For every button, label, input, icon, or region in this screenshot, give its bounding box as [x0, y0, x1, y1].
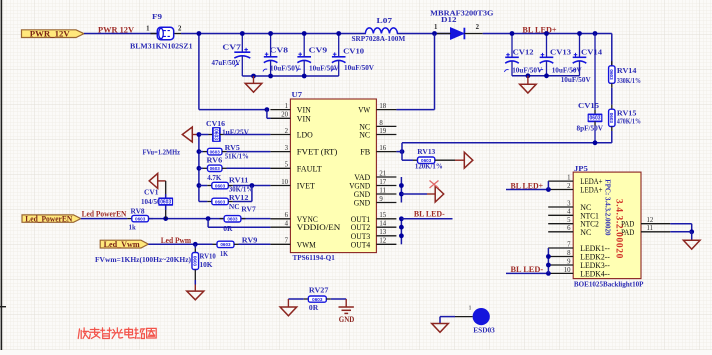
svg-text:0603: 0603 [220, 242, 231, 247]
svg-text:2: 2 [285, 128, 289, 135]
svg-text:18: 18 [379, 103, 386, 110]
svg-text:1: 1 [567, 175, 570, 182]
svg-text:1: 1 [469, 306, 472, 312]
svg-text:JP5: JP5 [574, 164, 588, 173]
svg-text:10uF/50V: 10uF/50V [552, 66, 582, 75]
svg-text:10uF/50V: 10uF/50V [561, 75, 591, 84]
svg-text:1: 1 [285, 103, 288, 110]
svg-text:9: 9 [567, 258, 571, 265]
svg-text:47uF/50V: 47uF/50V [212, 58, 241, 67]
svg-text:SRP7028A-100M: SRP7028A-100M [352, 34, 406, 43]
svg-text:10uF/50V: 10uF/50V [344, 63, 374, 72]
svg-text:BLM31KN102SZ1: BLM31KN102SZ1 [130, 42, 193, 51]
svg-text:10: 10 [281, 179, 288, 186]
svg-text:VW: VW [358, 106, 370, 115]
svg-text:470K/1%: 470K/1% [617, 117, 641, 126]
svg-text:19: 19 [379, 128, 386, 135]
svg-text:5: 5 [567, 217, 571, 224]
svg-text:L07: L07 [377, 16, 393, 25]
svg-text:RV27: RV27 [309, 286, 329, 295]
svg-text:LEDA+: LEDA+ [580, 186, 602, 195]
svg-text:0603: 0603 [193, 256, 198, 267]
svg-text:LDO: LDO [297, 131, 313, 140]
svg-text:14: 14 [379, 221, 386, 228]
svg-text:GND: GND [354, 199, 371, 208]
svg-text:CV15: CV15 [578, 101, 599, 110]
svg-text:CV9: CV9 [309, 45, 328, 54]
svg-text:ESD03: ESD03 [473, 326, 495, 335]
svg-text:15: 15 [379, 212, 386, 219]
svg-text:6: 6 [285, 212, 289, 219]
svg-text:U7: U7 [292, 90, 303, 99]
svg-text:0603: 0603 [215, 199, 226, 204]
svg-text:9: 9 [379, 196, 383, 203]
svg-text:16: 16 [379, 145, 386, 152]
svg-text:5: 5 [285, 162, 289, 169]
svg-text:10uF/50V: 10uF/50V [309, 63, 339, 72]
svg-text:2: 2 [476, 24, 480, 31]
svg-text:0R: 0R [223, 224, 233, 233]
svg-text:FPC: 3.4.3.2.00020: FPC: 3.4.3.2.00020 [603, 179, 611, 236]
svg-text:2: 2 [178, 26, 182, 33]
svg-text:0603: 0603 [213, 129, 219, 140]
svg-text:FVwm=1KHz(100Hz~20KHz): FVwm=1KHz(100Hz~20KHz) [95, 255, 191, 264]
svg-text:FB: FB [360, 148, 370, 157]
svg-text:0603: 0603 [590, 116, 601, 122]
svg-text:CV7: CV7 [222, 43, 241, 52]
svg-text:1k: 1k [129, 223, 137, 232]
svg-text:7: 7 [567, 241, 571, 248]
svg-text:Led Pwm: Led Pwm [161, 235, 191, 245]
svg-text:MBRAF3200T3G: MBRAF3200T3G [430, 8, 493, 17]
svg-text:FVET (RT): FVET (RT) [297, 148, 338, 157]
svg-text:FVu=1.2MHz: FVu=1.2MHz [143, 148, 181, 157]
svg-text:0603: 0603 [227, 217, 238, 222]
svg-text:NC: NC [580, 228, 591, 237]
svg-text:CV1: CV1 [144, 188, 159, 197]
svg-text:1: 1 [434, 24, 438, 31]
svg-text:CV13: CV13 [550, 48, 571, 57]
svg-text:0603: 0603 [609, 113, 614, 124]
svg-text:51K/1%: 51K/1% [225, 152, 249, 161]
svg-text:10: 10 [564, 267, 571, 274]
svg-text:4.7K: 4.7K [207, 173, 221, 182]
svg-text:RV9: RV9 [242, 236, 258, 245]
svg-text:0R: 0R [309, 303, 319, 312]
svg-text:NC: NC [359, 131, 370, 140]
svg-text:3.4.3.2.00020: 3.4.3.2.00020 [614, 199, 624, 259]
svg-text:20: 20 [281, 112, 288, 119]
svg-text:RV8: RV8 [131, 207, 145, 216]
svg-text:2: 2 [567, 183, 571, 190]
svg-text:VIN: VIN [297, 114, 311, 123]
svg-text:8: 8 [567, 250, 571, 257]
svg-text:10K: 10K [200, 260, 213, 269]
svg-text:OUT4: OUT4 [351, 240, 371, 249]
svg-text:8: 8 [379, 120, 383, 127]
svg-text:12: 12 [647, 217, 654, 224]
svg-text:D12: D12 [441, 15, 457, 24]
svg-text:RV6: RV6 [207, 156, 223, 165]
svg-text:PWR_12V: PWR_12V [30, 30, 70, 39]
svg-text:RV12: RV12 [229, 193, 249, 202]
svg-text:CV12: CV12 [513, 48, 534, 57]
svg-text:IVET: IVET [297, 182, 315, 191]
svg-text:1uF/25V: 1uF/25V [222, 127, 249, 136]
svg-text:13: 13 [379, 229, 386, 236]
svg-text:10uF/50V: 10uF/50V [270, 63, 300, 72]
svg-text:0603: 0603 [135, 216, 146, 221]
svg-text:120K/1%: 120K/1% [415, 162, 443, 171]
svg-text:RV7: RV7 [241, 205, 256, 214]
svg-text:RV13: RV13 [417, 147, 435, 156]
svg-text:8pF/50V: 8pF/50V [577, 124, 604, 133]
svg-text:VIN: VIN [297, 106, 311, 115]
svg-text:0603: 0603 [210, 166, 221, 171]
svg-text:0603: 0603 [312, 297, 323, 302]
svg-text:21: 21 [379, 170, 386, 177]
svg-text:3: 3 [567, 200, 571, 207]
svg-text:1K: 1K [220, 249, 228, 258]
svg-text:BL LED+: BL LED+ [522, 24, 556, 34]
svg-text:LEDK4--: LEDK4-- [580, 269, 610, 278]
svg-text:0603: 0603 [160, 199, 171, 205]
svg-text:NC: NC [229, 202, 240, 211]
svg-text:4: 4 [567, 209, 571, 216]
svg-text:7: 7 [285, 238, 289, 245]
svg-text:BOE1025Backlight10P: BOE1025Backlight10P [574, 279, 644, 288]
svg-text:Led PowerEN: Led PowerEN [82, 209, 128, 219]
svg-text:4: 4 [285, 221, 289, 228]
svg-text:F9: F9 [152, 12, 162, 21]
svg-text:FAULT: FAULT [297, 164, 322, 173]
svg-text:VDDIO/EN: VDDIO/EN [297, 223, 341, 232]
svg-text:TPS61194-Q1: TPS61194-Q1 [293, 253, 335, 262]
svg-text:330K/1%: 330K/1% [617, 76, 641, 85]
svg-text:0603: 0603 [609, 69, 614, 80]
svg-text:RV14: RV14 [617, 66, 637, 75]
svg-text:17: 17 [379, 179, 386, 186]
svg-text:Led_PowerEN: Led_PowerEN [25, 215, 72, 224]
svg-text:10uF/50V: 10uF/50V [512, 66, 542, 75]
svg-text:BL LED-: BL LED- [414, 208, 445, 218]
svg-text:CV10: CV10 [343, 47, 364, 56]
svg-text:Led_Vwm: Led_Vwm [104, 240, 140, 249]
svg-text:VWM: VWM [297, 240, 316, 249]
svg-text:CV8: CV8 [270, 45, 289, 54]
svg-text:1: 1 [146, 26, 150, 33]
svg-text:RV11: RV11 [229, 176, 249, 185]
svg-text:11: 11 [647, 225, 654, 232]
svg-text:6: 6 [567, 225, 571, 232]
svg-text:12: 12 [379, 238, 386, 245]
svg-text:0603: 0603 [215, 183, 226, 188]
svg-text:0603: 0603 [210, 149, 221, 154]
svg-text:11: 11 [379, 187, 386, 194]
svg-text:GND: GND [339, 315, 355, 324]
svg-text:3: 3 [285, 145, 289, 152]
svg-text:CV14: CV14 [581, 48, 602, 57]
